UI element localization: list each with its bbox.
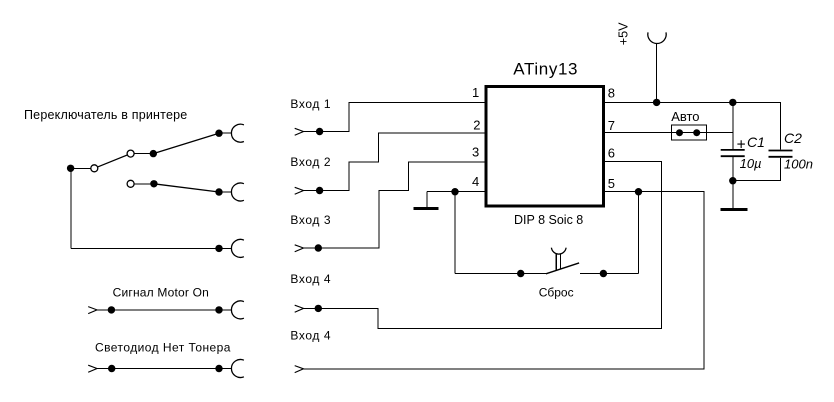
wire reset left <box>455 273 546 275</box>
svg-text:Сброс: Сброс <box>539 285 574 299</box>
junction dot Вход 3 <box>315 244 322 251</box>
wire pin 4 to ground <box>426 192 428 207</box>
pushbutton SB1 plunger right line <box>559 254 561 269</box>
junction dot Motor On left <box>108 306 115 313</box>
capacitor C2 top plate <box>769 150 793 152</box>
junction dot +5V <box>653 99 660 106</box>
wire lower throw diagonal to connector X2 <box>154 184 219 192</box>
svg-text:8: 8 <box>608 85 615 100</box>
svg-text:C1: C1 <box>747 134 765 150</box>
wire pin 4 junction down to reset <box>454 192 456 274</box>
input arrow Вход 1 <box>295 128 304 135</box>
junction dot pin 5 <box>635 188 642 195</box>
svg-text:6: 6 <box>608 146 615 161</box>
junction dot at connector X3 <box>215 245 222 252</box>
jumper J1 Авто box <box>672 125 707 140</box>
wire Вход 3 to pin 3 <box>304 162 485 248</box>
svg-text:DIP 8 Soic 8: DIP 8 Soic 8 <box>514 213 583 227</box>
wire Вход 4 first to pin 6 <box>304 162 662 329</box>
input arrow Вход 4 second <box>295 366 304 373</box>
junction dot reset right <box>600 270 607 277</box>
wire pin 4 <box>427 191 485 193</box>
junction dot Вход 1 <box>316 128 323 135</box>
svg-text:Вход 4: Вход 4 <box>290 328 331 342</box>
svg-text:2: 2 <box>473 117 480 132</box>
wire upper throw stub <box>134 153 153 155</box>
connector X1 arc <box>231 124 243 142</box>
connector X4 arc <box>231 301 243 319</box>
capacitor C1 bottom plate <box>721 155 745 157</box>
connector X5 arc <box>231 360 243 378</box>
svg-text:100n: 100n <box>784 156 813 171</box>
junction dot upper throw <box>150 150 157 157</box>
input arrow Нет Тонера <box>88 365 97 372</box>
pushbutton SB1 plunger left line <box>555 254 557 270</box>
junction dot Motor On right <box>215 306 222 313</box>
junction dot Нет Тонера right <box>215 365 222 372</box>
svg-text:C2: C2 <box>784 130 802 146</box>
svg-text:+: + <box>737 136 746 153</box>
capacitor C1 top plate <box>721 149 745 151</box>
wire C2 top <box>779 102 781 149</box>
wire C1 bottom to ground <box>732 157 734 208</box>
input arrow Вход 3 <box>295 245 304 252</box>
jumper J1 pin dot right <box>693 129 700 136</box>
junction dot Вход 4 first <box>315 305 322 312</box>
switch SW1 common wire vertical <box>70 168 72 248</box>
wire switch bottom row to connector X3 <box>71 247 232 249</box>
svg-text:4: 4 <box>472 174 479 189</box>
connector X3 arc <box>231 239 243 257</box>
wire +5V connector down <box>656 44 658 103</box>
svg-text:ATiny13: ATiny13 <box>513 60 578 79</box>
junction dot lower throw <box>150 180 157 187</box>
ground GND2 bar <box>720 208 747 211</box>
svg-text:Авто: Авто <box>671 109 699 124</box>
svg-text:Светодиод Нет Тонера: Светодиод Нет Тонера <box>95 341 231 355</box>
wire C2 bottom <box>779 158 781 181</box>
switch SW1 pivot open circle <box>91 165 98 172</box>
capacitor C2 bottom plate <box>769 156 793 158</box>
wire upper throw diagonal to connector X1 <box>153 133 219 153</box>
svg-text:3: 3 <box>472 145 479 160</box>
input arrow Вход 2 <box>295 187 304 194</box>
wire lower throw stub <box>134 183 154 185</box>
wire reset right up to pin 5 <box>638 192 640 274</box>
junction dot at connector X1 <box>215 130 222 137</box>
wire Вход 2 to pin 2 <box>304 133 485 191</box>
svg-text:7: 7 <box>608 118 615 133</box>
connector X2 arc <box>231 183 243 201</box>
svg-text:Сигнал Motor On: Сигнал Motor On <box>113 286 209 300</box>
ground GND1 bar <box>413 207 438 210</box>
switch SW1 common node dot <box>67 165 74 172</box>
IC U1 ATiny13 body <box>486 86 603 206</box>
input arrow Вход 4 first <box>295 305 304 312</box>
junction dot pin 4 <box>451 188 458 195</box>
wire Нет Тонера <box>97 368 232 370</box>
wire pin 7 to jumper <box>605 132 733 134</box>
svg-text:10µ: 10µ <box>740 156 762 171</box>
wire common dot to pivot <box>71 167 95 169</box>
wire reset right <box>580 273 639 275</box>
svg-text:1: 1 <box>472 85 479 100</box>
wire stub to connector X2 <box>219 191 232 193</box>
pushbutton SB1 lever <box>546 263 579 274</box>
wire stub to connector X1 <box>219 132 232 134</box>
wire Motor On <box>97 309 232 311</box>
junction dot reset left <box>517 270 524 277</box>
svg-text:Переключатель в принтере: Переключатель в принтере <box>24 108 187 122</box>
switch SW1 lever <box>94 154 130 169</box>
svg-text:+5V: +5V <box>617 22 631 45</box>
svg-text:Вход 2: Вход 2 <box>290 155 331 169</box>
svg-text:5: 5 <box>608 176 615 191</box>
svg-text:Вход 3: Вход 3 <box>290 213 331 227</box>
junction dot Нет Тонера left <box>108 365 115 372</box>
junction dot at connector X2 <box>215 188 222 195</box>
switch SW1 upper throw open circle <box>127 150 134 157</box>
junction dot C1 top <box>729 99 736 106</box>
connector +5V arc <box>648 32 666 43</box>
input arrow Motor On <box>88 307 97 314</box>
junction dot Вход 2 <box>316 187 323 194</box>
wire Вход 1 to pin 1 <box>304 103 485 132</box>
wire C1 bottom to C2 bottom <box>733 180 781 182</box>
switch SW1 lower throw open circle <box>127 180 134 187</box>
pushbutton SB1 cap arc <box>551 248 566 254</box>
jumper J1 pin dot left <box>676 129 683 136</box>
junction dot C1 bottom <box>729 177 736 184</box>
wire pin 8 (+5V rail) <box>605 101 781 103</box>
wire Вход 4 second to pin 5 <box>304 192 705 369</box>
svg-text:Вход 4: Вход 4 <box>290 272 331 286</box>
svg-text:Вход 1: Вход 1 <box>290 97 331 111</box>
wire C1 top <box>732 102 734 149</box>
